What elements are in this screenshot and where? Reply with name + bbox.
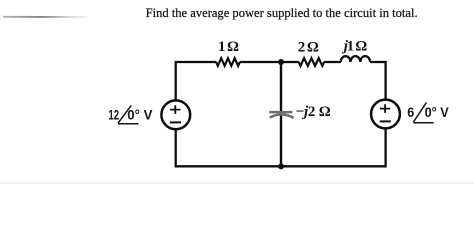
svg-text:−j2 Ω: −j2 Ω [296,104,331,120]
junction dot bottom [278,163,284,169]
voltage source V2 [371,100,400,129]
resistor R1 [216,58,240,66]
wire bottom-left segment [176,129,281,166]
label V2 6&#8736;0&#176; V [407,102,449,122]
label V1 12&#8736;0&#176; V [108,105,153,123]
wire R2 to L1 [324,61,341,63]
svg-text:12: 12 [108,106,119,122]
svg-text:6: 6 [407,104,414,120]
wire bottom-right segment [281,129,386,167]
voltage source V1 [161,100,190,129]
svg-text:0° V: 0° V [425,104,450,120]
svg-text:1Ω: 1Ω [218,39,239,55]
wire top-left segment [176,62,217,101]
svg-text:Find the average power supplie: Find the average power supplied to the c… [146,5,418,20]
capacitor C1 [269,112,293,118]
wire R1 to junction [240,61,299,63]
junction dot top [278,59,284,65]
svg-text:2 Ω: 2 Ω [298,39,319,55]
svg-text:j1 Ω: j1 Ω [342,38,368,54]
resistor R2 [299,58,324,66]
inductor L1 [341,56,370,62]
pencil mark top-left [3,16,88,18]
wire top-right segment [370,62,386,100]
page edge line bottom [0,182,474,183]
svg-text:0° V: 0° V [127,106,153,122]
middle branch wire [280,62,282,166]
